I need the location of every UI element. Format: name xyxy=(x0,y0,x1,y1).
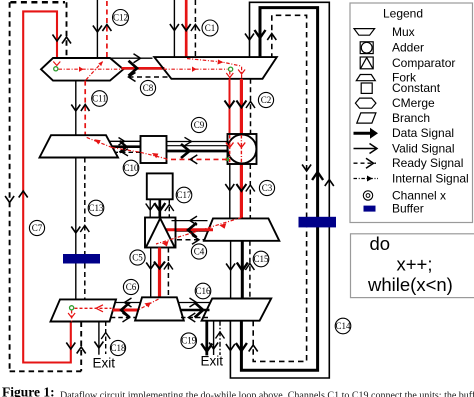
svg-text:Mux: Mux xyxy=(392,25,415,39)
data thick F2->comparator with red overlay xyxy=(176,229,210,232)
arrows on right loop near mux xyxy=(245,34,254,41)
svg-text:C10: C10 xyxy=(123,163,139,173)
svg-text:while(x<n): while(x<n) xyxy=(367,274,453,295)
internal signal inside CMerge xyxy=(59,68,122,70)
wire: C1 black vertical xyxy=(173,0,175,57)
svg-text:Data Signal: Data Signal xyxy=(392,126,454,140)
node C18 xyxy=(110,340,126,355)
svg-text:C4: C4 xyxy=(194,247,205,257)
valid arrow CMerge->Mux xyxy=(110,57,153,59)
channel marker green (Mux) xyxy=(229,67,233,71)
legend icon channel x xyxy=(363,191,372,200)
legend icon adder xyxy=(360,42,373,54)
svg-text:Ready Signal: Ready Signal xyxy=(392,156,463,170)
svg-text:Branch: Branch xyxy=(392,111,430,125)
legend icon fork xyxy=(356,75,375,81)
svg-text:Dataflow circuit implementing: Dataflow circuit implementing the do-whi… xyxy=(60,391,474,397)
Exit1 lines xyxy=(98,322,100,355)
CMerge M1 xyxy=(41,58,123,81)
fork P2 xyxy=(135,297,184,320)
ready dashed Mux->CMerge xyxy=(128,76,168,78)
svg-text:Exit: Exit xyxy=(201,354,224,369)
node C13 xyxy=(88,200,104,216)
constant->comparator bundle xyxy=(149,199,151,217)
legend icon ready signal xyxy=(354,162,377,164)
comparator->P2 bundle xyxy=(150,248,152,298)
valid arrow F2->comparator xyxy=(172,220,208,222)
small green square marker xyxy=(226,158,229,161)
internal signal inside Mux (from left) xyxy=(164,68,228,70)
arrow down on red x70.8 xyxy=(66,343,75,350)
C2 ready dashed xyxy=(250,79,252,134)
node C3 xyxy=(259,180,274,195)
svg-text:Internal Signal: Internal Signal xyxy=(392,172,469,186)
svg-text:Figure 1:: Figure 1: xyxy=(2,385,55,397)
internal signal data line -> comparator (long diagonal) xyxy=(156,218,242,245)
svg-text:Legend: Legend xyxy=(383,7,423,21)
legend icon mux xyxy=(354,29,375,36)
P2<->P1 bundle xyxy=(115,302,141,304)
svg-text:C13: C13 xyxy=(88,203,104,213)
svg-text:C7: C7 xyxy=(32,223,43,233)
svg-text:Adder: Adder xyxy=(392,41,424,55)
internal inside P2 xyxy=(139,299,159,310)
arrow up on red x23.2 xyxy=(19,191,28,198)
Mux M2 xyxy=(154,57,276,79)
exit labels xyxy=(93,354,224,371)
node C14 xyxy=(335,318,351,334)
CHANNEL LABELS xyxy=(29,10,351,356)
svg-text:C5: C5 xyxy=(132,253,143,263)
legend texts xyxy=(392,25,469,215)
arrows on right loop below P3 xyxy=(226,344,235,351)
Exit2 lines xyxy=(205,321,208,356)
node C8 xyxy=(140,80,155,95)
svg-text:C9: C9 xyxy=(194,120,205,130)
internal signal inside box xyxy=(141,152,167,159)
right feedback loop dashed rect xyxy=(253,15,306,361)
C13 dashed vertical xyxy=(84,158,86,255)
C3 ready dashed xyxy=(249,164,251,218)
node C1 xyxy=(202,20,218,36)
internal signal inside F1 xyxy=(86,137,113,148)
svg-text:C6: C6 xyxy=(126,282,137,292)
legend frame xyxy=(350,3,473,223)
node C5 xyxy=(130,250,145,265)
svg-text:C15: C15 xyxy=(253,254,269,264)
ready dashed comparator->F2 xyxy=(177,239,206,241)
svg-text:Valid Signal: Valid Signal xyxy=(392,142,454,156)
fork F2 (below adder) xyxy=(204,218,279,240)
C3 black valid vertical xyxy=(229,164,231,218)
node C17 xyxy=(176,187,192,203)
arrow up on dashed x81.2 xyxy=(77,347,86,354)
node C7 xyxy=(29,220,44,235)
wire: ready from branch B1 bottom (dashed) xyxy=(80,322,82,372)
node C2 xyxy=(258,92,273,107)
node C6 xyxy=(123,279,138,294)
svg-text:Channel x: Channel x xyxy=(392,189,446,203)
internal crossing F1->box xyxy=(112,148,141,153)
svg-text:Buffer: Buffer xyxy=(392,202,424,216)
buffer B1 (left, blue) xyxy=(63,254,100,264)
right feedback loop thick rect xyxy=(241,8,317,371)
wire: ready loop bottom (dashed) xyxy=(10,370,82,372)
legend icon branch xyxy=(357,113,376,123)
constant K1 xyxy=(147,173,173,199)
svg-text:C12: C12 xyxy=(113,13,128,23)
svg-text:C18: C18 xyxy=(110,343,126,353)
C13 black vertical F1->buffer xyxy=(75,158,77,255)
arrow up on dashed x66.5 xyxy=(62,37,71,44)
svg-text:do: do xyxy=(370,233,391,254)
svg-text:C1: C1 xyxy=(205,23,216,33)
svg-text:C14: C14 xyxy=(335,321,351,331)
legend icon constant xyxy=(361,83,372,93)
svg-text:C19: C19 xyxy=(181,336,197,346)
data thick CMerge->Mux with red overlay xyxy=(123,67,164,70)
wire: C12 black vertical xyxy=(96,0,98,58)
data thick F1->fork box xyxy=(113,145,141,148)
valid arrow F1->fork box xyxy=(110,140,141,142)
node C10 xyxy=(123,160,139,176)
svg-text:CMerge: CMerge xyxy=(392,96,435,110)
wire: ready loop left vertical (dashed) xyxy=(9,2,11,371)
node C9 xyxy=(191,117,206,132)
channel marker green (CMerge) xyxy=(54,67,58,71)
C2 red valid vertical xyxy=(229,79,231,134)
node C11 xyxy=(92,91,108,107)
C11 black vertical CMerge->F1 xyxy=(75,81,77,136)
CAPTION xyxy=(2,385,474,397)
fork F1 xyxy=(40,135,119,157)
arrow down on dashed x9.6 xyxy=(5,196,14,203)
branch P3 xyxy=(202,299,272,321)
svg-text:C11: C11 xyxy=(92,94,107,104)
node C16 xyxy=(195,283,211,299)
svg-text:C8: C8 xyxy=(143,83,154,93)
channel marker green (P1) xyxy=(70,306,74,310)
wire: C1 red thick vertical xyxy=(185,0,188,57)
CODE BOX xyxy=(351,233,474,298)
arrows on right loop mid xyxy=(302,165,311,172)
C15 bundle F2->P3 xyxy=(230,241,232,299)
legend icon data signal xyxy=(354,132,373,135)
svg-text:Exit: Exit xyxy=(93,356,116,371)
legend icon comparator xyxy=(360,57,373,69)
C3 thick arrow mark xyxy=(236,184,246,191)
svg-text:C17: C17 xyxy=(176,190,192,200)
C9 bundle box->adder xyxy=(167,141,228,143)
wire: C12 red dashed vertical xyxy=(106,1,108,58)
internal inside P1 xyxy=(75,307,112,309)
adder U1 xyxy=(228,134,257,164)
svg-text:C3: C3 xyxy=(262,183,273,193)
MAIN DIAGRAM xyxy=(5,0,336,378)
svg-text:Comparator: Comparator xyxy=(392,56,455,70)
legend icon buffer xyxy=(364,206,376,212)
wire: ready loop top-left (dashed) xyxy=(10,1,65,4)
below buffer to P1 xyxy=(75,264,77,300)
internal drop from green circle xyxy=(229,72,231,79)
legend icon cmerge xyxy=(355,98,376,108)
wire: red data loop (left side) xyxy=(23,11,71,362)
branch P1 xyxy=(51,299,117,321)
svg-text:x++;: x++; xyxy=(397,254,433,275)
node C19 xyxy=(181,333,197,349)
internal marks inside adder xyxy=(229,135,231,163)
node C4 xyxy=(191,244,206,259)
arrow down on red x57 xyxy=(53,35,62,42)
ready dashed fork box->F1 xyxy=(116,151,141,153)
comparator U2 xyxy=(145,218,176,248)
fork box U3 xyxy=(141,136,167,163)
right feedback loop thin rect xyxy=(230,2,329,378)
legend icon internal signal xyxy=(354,178,379,180)
C2 thick red data vertical (continues through adder to fork F2) xyxy=(240,79,243,135)
wire: C1 dashed vertical xyxy=(194,0,196,57)
wire: ready into CMerge top (dashed) xyxy=(66,2,68,57)
svg-text:C2: C2 xyxy=(261,95,272,105)
buffer B2 (right, blue) xyxy=(299,217,337,228)
legend icon valid signal xyxy=(354,148,377,150)
LEGEND xyxy=(350,3,473,223)
svg-text:Constant: Constant xyxy=(392,81,441,95)
P2<->P3 bundle xyxy=(179,302,212,304)
C11 red dashed vertical xyxy=(84,81,86,136)
node C12 xyxy=(113,10,129,26)
internal signal inside Mux (from C1 red) xyxy=(187,59,242,79)
svg-text:C16: C16 xyxy=(195,286,211,296)
node C15 xyxy=(253,251,269,267)
